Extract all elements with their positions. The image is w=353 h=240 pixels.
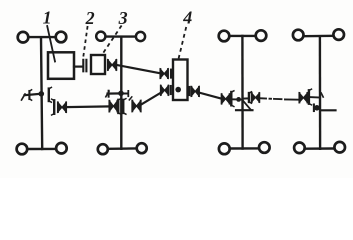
svg-text:1: 1 bbox=[43, 8, 52, 28]
svg-text:3: 3 bbox=[118, 8, 128, 28]
svg-text:2: 2 bbox=[85, 8, 95, 28]
svg-text:4: 4 bbox=[182, 8, 192, 28]
